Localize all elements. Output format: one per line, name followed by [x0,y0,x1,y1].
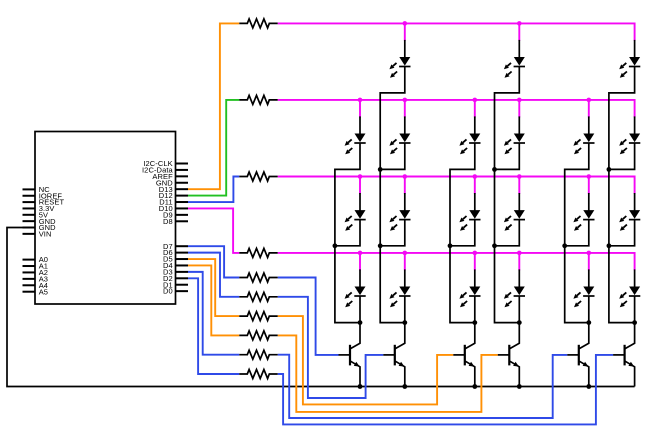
svg-text:A5: A5 [39,287,48,296]
svg-text:VIN: VIN [39,229,52,238]
svg-text:D8: D8 [163,217,173,226]
svg-text:D0: D0 [163,287,173,296]
